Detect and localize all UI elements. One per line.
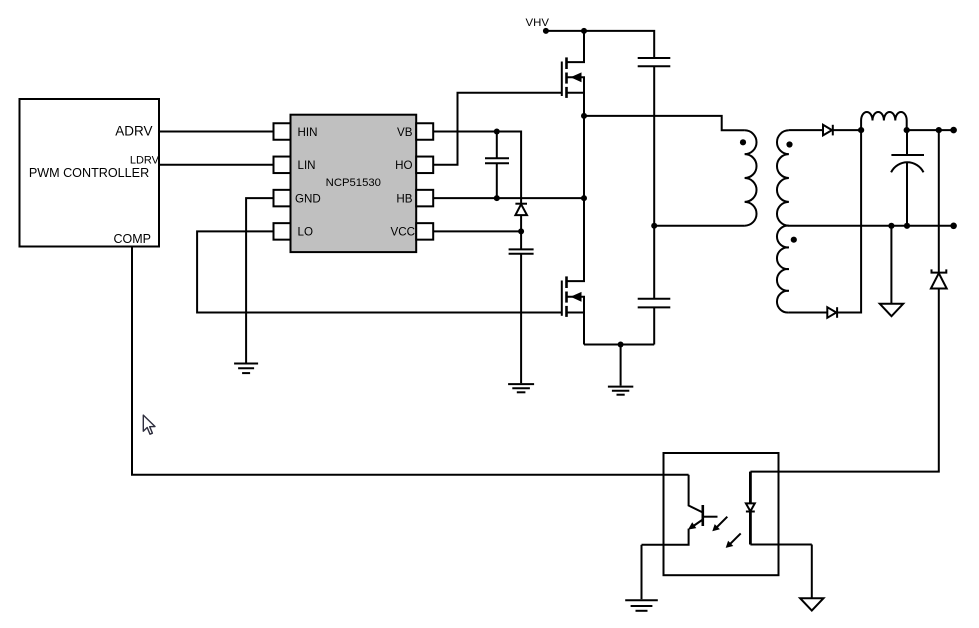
svg-text:HO: HO (395, 159, 412, 172)
pin LO (274, 223, 291, 240)
node output terminal bottom (950, 223, 957, 230)
svg-text:VB: VB (397, 126, 413, 139)
capacitor C2 VCC (509, 231, 534, 383)
wire HO to high-side gate (433, 93, 562, 165)
node primary dot (740, 139, 746, 145)
wire primary return (654, 225, 744, 227)
node HB-cap junction (494, 195, 500, 201)
op-amp U1 NCP51530 body (291, 115, 417, 252)
wire switch node to primary (584, 116, 745, 130)
diode D2 top rectifier (823, 125, 861, 136)
wire opto emitter ground (641, 545, 643, 599)
wire LO to low-side gate (197, 231, 562, 312)
pin HB (416, 190, 433, 207)
node VCC junction (518, 228, 524, 234)
node drain rail junction (581, 28, 587, 34)
wire ADRV to HIN (159, 131, 274, 133)
transformer T1 secondary upper winding (777, 130, 789, 225)
wire low-side source rail (584, 344, 654, 346)
pin VB (416, 123, 433, 140)
node HB switch junction (581, 195, 587, 201)
svg-text:VHV: VHV (526, 17, 550, 29)
svg-text:LO: LO (298, 226, 313, 239)
ground G2 (508, 384, 534, 392)
capacitor C1 bootstrap (485, 132, 509, 199)
transformer T1 secondary lower winding (777, 226, 789, 313)
node VHV terminal (543, 28, 549, 34)
diode D5 opto LED (746, 472, 812, 545)
transistor Q2 low-side MOSFET (562, 116, 584, 345)
PWM controller box (20, 99, 160, 247)
pin VCC (416, 223, 433, 240)
pin HIN (274, 123, 291, 140)
pin GND (274, 190, 291, 207)
mouse cursor (143, 415, 155, 434)
ground G3 (608, 387, 633, 395)
wire GND pin to ground (246, 198, 273, 362)
svg-text:NCP51530: NCP51530 (326, 177, 381, 189)
wire COMP to optocoupler (132, 247, 689, 475)
optocoupler U2 box (664, 453, 779, 575)
node secondary upper dot (786, 141, 792, 147)
wire secondary bottom lead (789, 312, 827, 314)
transformer T1 primary winding (745, 130, 757, 225)
LED arrow 2 (726, 533, 741, 548)
node inductor out junction (904, 127, 910, 133)
capacitor C3 upper bus (638, 58, 671, 299)
diode D1 bootstrap (515, 204, 527, 232)
diode D3 bottom rectifier (827, 130, 861, 318)
ground G4 (625, 600, 658, 611)
wire VCC (433, 230, 521, 232)
node VB junction (494, 129, 500, 135)
svg-text:HB: HB (396, 192, 412, 205)
svg-text:PWM CONTROLLER: PWM CONTROLLER (29, 166, 149, 180)
wire VHV rail (546, 31, 654, 58)
node rectifier junction (858, 127, 864, 133)
pin HO (416, 157, 433, 174)
capacitor C4 lower bus (638, 299, 671, 345)
ground G6 signal (880, 304, 903, 316)
svg-text:VCC: VCC (391, 226, 415, 239)
node switch (581, 113, 587, 119)
ground G1 (234, 364, 258, 374)
wire output ground stem (890, 226, 892, 304)
ground G5 signal (800, 598, 823, 610)
transistor Q1 high-side MOSFET (562, 31, 584, 116)
svg-text:HIN: HIN (298, 126, 318, 139)
svg-text:ADRV: ADRV (115, 124, 152, 139)
pin LIN (274, 157, 291, 174)
wire ground stem (620, 345, 622, 386)
node secondary lower dot (791, 237, 797, 243)
node primary return junction (651, 223, 657, 229)
svg-text:LDRV: LDRV (130, 155, 160, 167)
wire HB to switch node (433, 197, 584, 199)
svg-text:COMP: COMP (114, 232, 152, 246)
transistor Q3 opto phototransistor (642, 475, 718, 545)
wire center tap rail (789, 225, 954, 227)
wire output rail (907, 129, 954, 131)
node source-ground junction (618, 342, 624, 348)
node ground stem junction (888, 223, 894, 229)
svg-text:LIN: LIN (298, 159, 316, 172)
node zener top junction (936, 127, 942, 133)
svg-text:GND: GND (295, 192, 321, 205)
LED arrow 1 (712, 517, 727, 532)
wire VB to bootstrap node (433, 132, 521, 204)
node output terminal top (950, 127, 957, 134)
wire secondary top lead (789, 129, 823, 131)
node output cap junction (904, 223, 910, 229)
wire LDRV to LIN (159, 164, 274, 166)
diode D4 zener (750, 130, 946, 472)
wire opto LED ground (811, 545, 813, 599)
inductor L1 (861, 112, 907, 130)
capacitor C5 output (891, 130, 924, 226)
